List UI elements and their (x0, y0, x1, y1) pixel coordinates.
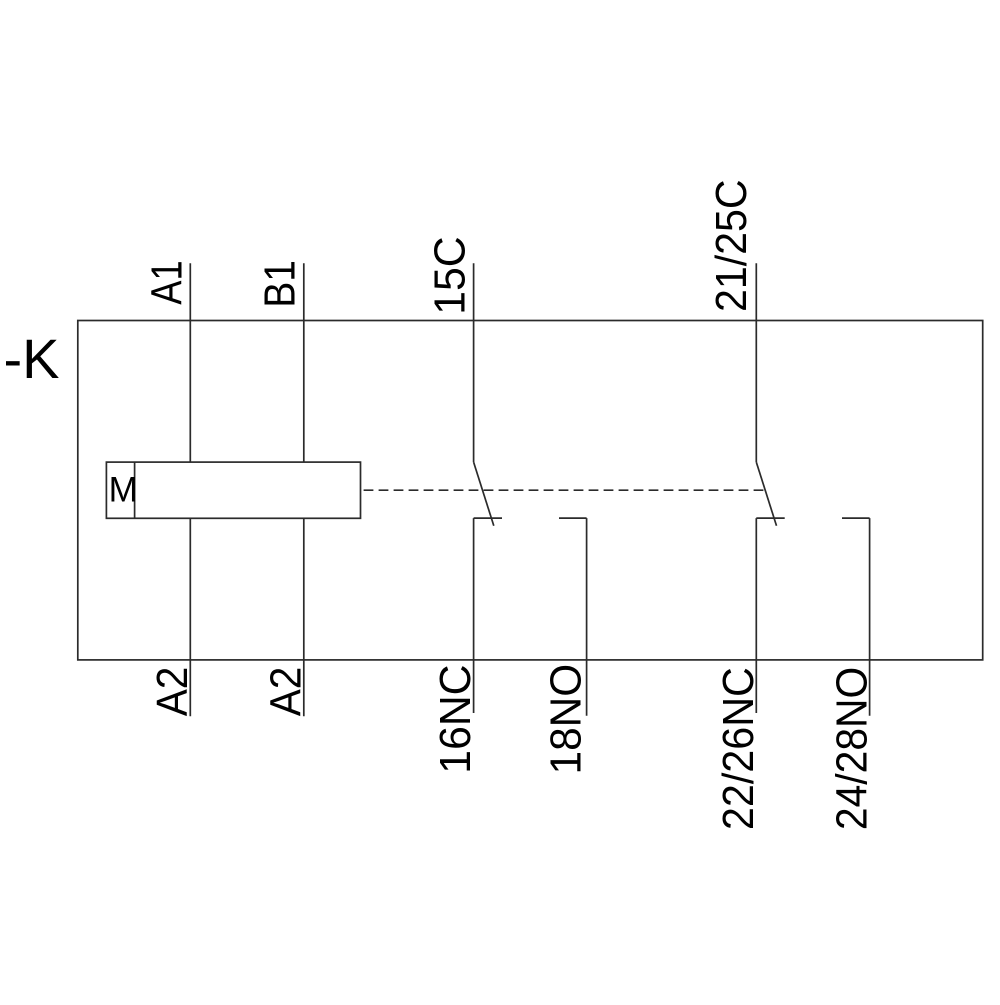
svg-text:22/26NC: 22/26NC (714, 667, 763, 830)
svg-text:24/28NO: 24/28NO (827, 667, 876, 830)
fixed contact 22/26NC tick (756, 517, 784, 519)
svg-text:B1: B1 (254, 260, 304, 308)
pin B1 wire (303, 263, 305, 462)
svg-text:15C: 15C (426, 236, 475, 314)
coil K (operating device box) (106, 462, 360, 518)
pin 16NC wire (473, 518, 475, 713)
relay body outline (78, 321, 983, 660)
fixed contact 18NO tick (559, 517, 587, 519)
svg-text:18NO: 18NO (542, 664, 591, 775)
svg-text:-K: -K (4, 327, 60, 390)
switch blade contact 21/25-22/26 24/28 (756, 462, 776, 526)
svg-text:A1: A1 (141, 260, 191, 304)
mechanical link dashed line (361, 489, 766, 491)
pin 22/26NC wire (755, 518, 757, 713)
svg-text:M: M (109, 471, 138, 510)
pin 18NO wire (586, 518, 588, 716)
svg-text:16NC: 16NC (431, 664, 480, 773)
pin A2 wire (left) (189, 518, 191, 716)
pin 15C wire (473, 263, 475, 462)
pin 21/25C wire (755, 263, 757, 462)
fixed contact 16NC tick (474, 517, 502, 519)
svg-text:A2: A2 (147, 667, 196, 717)
pin 24/28NO wire (869, 518, 871, 716)
pin A1 wire (189, 263, 191, 462)
svg-text:21/25C: 21/25C (707, 180, 757, 312)
fixed contact 24/28NO tick (842, 517, 870, 519)
switch blade contact 15-16/18 (474, 462, 494, 526)
coil M compartment divider (134, 462, 136, 518)
svg-text:A2: A2 (261, 667, 310, 717)
pin A2 wire (right) (303, 518, 305, 716)
